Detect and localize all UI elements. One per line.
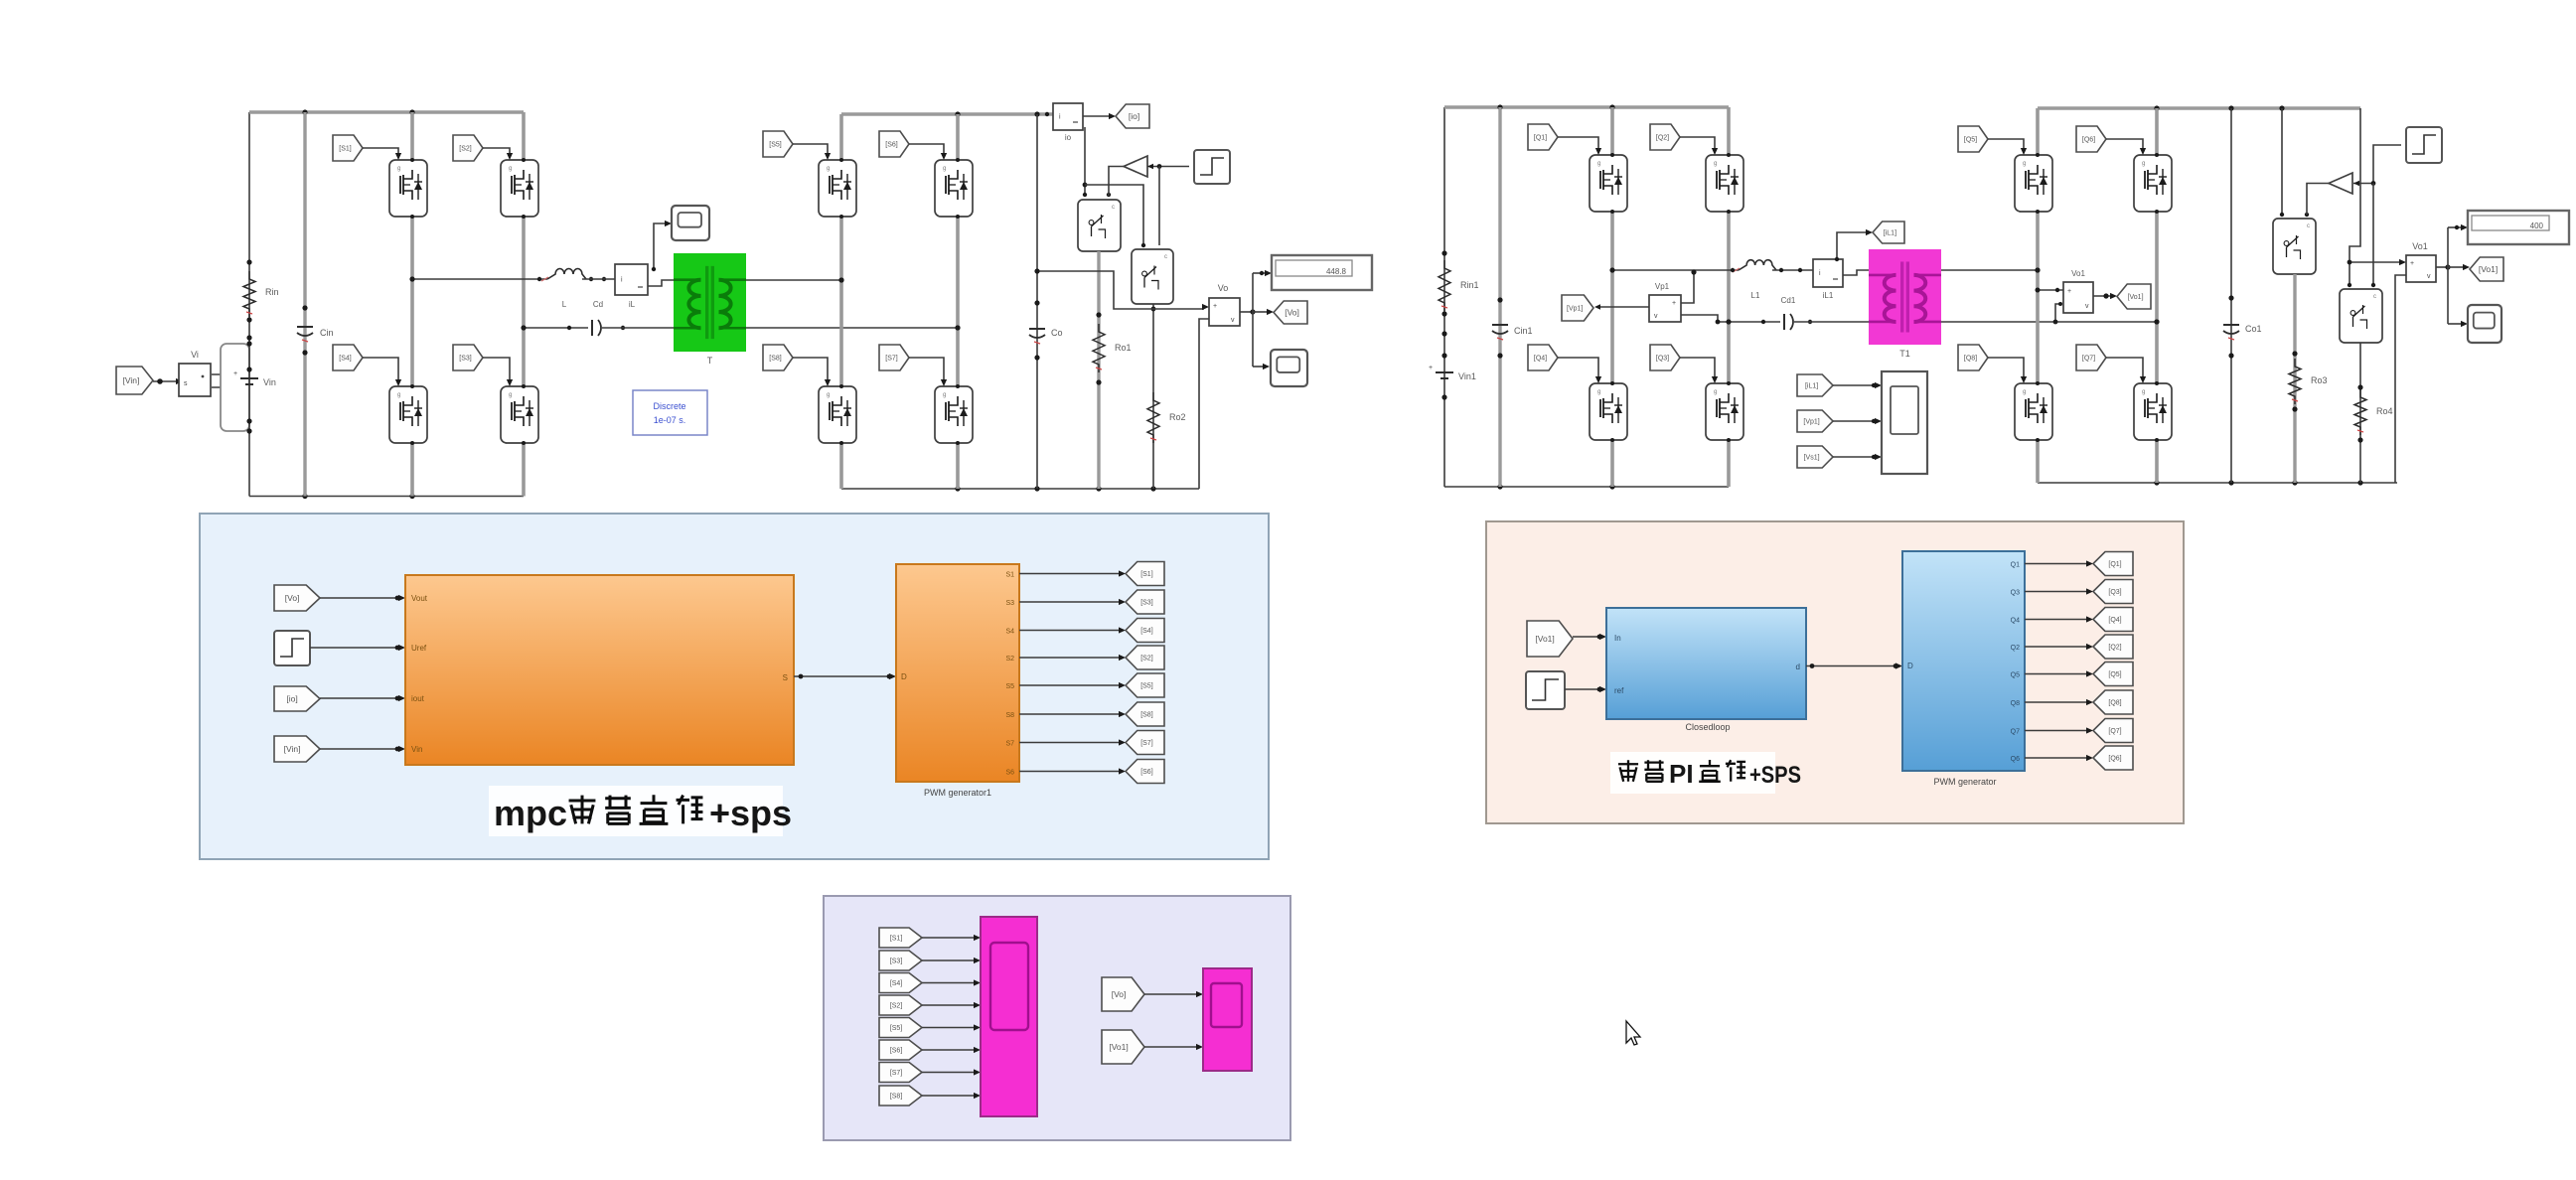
svg-text:[S3]: [S3]: [890, 959, 903, 965]
svg-text:[Q5]: [Q5]: [2108, 671, 2121, 678]
wire bottom rail c2 bridge2: [2038, 482, 2397, 484]
wire pwm1 out [S6]: [1019, 771, 1121, 773]
wire mpc to pwm1: [794, 675, 891, 677]
svg-text:g: g: [943, 392, 946, 398]
wire transformer to colC mid: [746, 279, 841, 281]
from tag [S8]: [763, 345, 793, 370]
from tag [Q6]: [2076, 126, 2106, 152]
goto tag [Q8]: [2093, 690, 2133, 714]
breaker 2: [1132, 249, 1173, 304]
svg-text:[S5]: [S5]: [890, 1025, 903, 1032]
svg-text:c: c: [2307, 223, 2310, 229]
svg-text:g: g: [2142, 389, 2145, 395]
wire Vo branch vertical: [1252, 273, 1254, 367]
svg-text:+: +: [2410, 260, 2414, 267]
svg-text:v: v: [2427, 273, 2431, 280]
svg-text:Vo: Vo: [1218, 283, 1229, 293]
wire [S4] to gate scope: [922, 982, 976, 984]
from tag [S2] scope-panel: [879, 995, 922, 1015]
goto tag [Q2]: [2093, 635, 2133, 659]
wire Cin column: [303, 112, 306, 497]
wire gate Q4: [1558, 358, 1598, 379]
svg-text:+: +: [2067, 288, 2071, 295]
from tag [Vp1] scope: [1797, 410, 1833, 432]
wire gate Q2: [1680, 137, 1715, 151]
wire gain to breaker1 ctrl: [1109, 167, 1124, 197]
svg-text:[Vo1]: [Vo1]: [1535, 634, 1554, 644]
svg-text:448.8: 448.8: [1326, 267, 1347, 276]
wire column x=1740: [1727, 107, 1731, 487]
from tag [Vo] mpc: [274, 585, 320, 611]
svg-text:io: io: [1065, 133, 1072, 142]
scope block voltages (magenta): [1203, 968, 1252, 1071]
svg-text:[S5]: [S5]: [769, 142, 782, 149]
inductor L1: [1739, 260, 1776, 270]
from tag [S2]: [453, 135, 483, 161]
svg-text:S2: S2: [1005, 656, 1014, 663]
svg-text:Ro4: Ro4: [2376, 406, 2393, 416]
wire gate S5: [793, 144, 828, 156]
goto tag [S1]: [1126, 562, 1164, 586]
gain block 2: [2329, 173, 2352, 194]
wire Vo1+ from column: [2038, 289, 2063, 291]
svg-text:[S8]: [S8]: [1140, 712, 1153, 719]
svg-text:Vin: Vin: [263, 377, 276, 387]
svg-text:[Vo]: [Vo]: [285, 593, 300, 603]
capacitor Cd: [592, 320, 601, 336]
wire rail to breaker4: [2349, 108, 2360, 285]
wire to scope2: [2448, 323, 2462, 325]
wire to display1: [1253, 272, 1266, 274]
svg-text:[Vp1]: [Vp1]: [1803, 419, 1819, 426]
svg-text:g: g: [2023, 389, 2026, 395]
svg-text:+: +: [233, 370, 237, 377]
from tag [S4]: [333, 345, 363, 370]
from tag [Q3]: [1650, 345, 1680, 370]
svg-text:s: s: [184, 380, 188, 387]
from tag [Vin]: [116, 367, 153, 394]
wire gate S2: [483, 148, 510, 156]
mosfet Q4: [1590, 383, 1627, 440]
voltage measurement Vp1: [1649, 295, 1681, 322]
svg-text:[S6]: [S6]: [1140, 769, 1153, 776]
svg-text:[Vs1]: [Vs1]: [1804, 455, 1820, 462]
wire gain2 to breaker3 ctrl: [2307, 184, 2329, 216]
svg-text:[S1]: [S1]: [339, 146, 352, 153]
discrete solver annotation block: [633, 390, 707, 435]
scope block multi-input: [1882, 371, 1927, 474]
resistor Ro1: [1093, 324, 1105, 372]
transformer T1: [1869, 249, 1941, 345]
svg-text:Q7: Q7: [2011, 729, 2020, 736]
wire iL signal to scope: [654, 223, 667, 269]
svg-text:g: g: [2142, 161, 2145, 167]
svg-text:c: c: [2373, 294, 2376, 300]
current measurement iL: [615, 264, 648, 295]
svg-text:Co: Co: [1051, 328, 1063, 338]
svg-text:Ro1: Ro1: [1115, 343, 1132, 353]
wire bridge1 midA to inductor: [412, 278, 547, 280]
svg-text:[Q8]: [Q8]: [1964, 356, 1977, 363]
wire T1 to colG mid: [1941, 269, 2038, 271]
wire step2 to gain2: [2353, 145, 2401, 184]
gain block: [1124, 156, 1147, 177]
wire gate Q3: [1680, 358, 1715, 379]
goto tag [S4]: [1126, 619, 1164, 643]
wire [S2] to gate scope: [922, 1004, 976, 1006]
svg-text:Ro2: Ro2: [1169, 412, 1186, 422]
capacitor Co1: [2223, 325, 2239, 340]
svg-text:[Vo1]: [Vo1]: [2128, 294, 2144, 301]
wire Vo to mpc: [320, 597, 400, 599]
svg-text:v: v: [1231, 317, 1235, 324]
from tag [io] mpc: [274, 686, 320, 711]
svg-text:[Q7]: [Q7]: [2082, 356, 2095, 363]
mosfet S4: [389, 386, 427, 443]
svg-text:S1: S1: [1005, 572, 1014, 579]
wire pwm2 out [Q1]: [2025, 563, 2088, 565]
wire Vp1+ from top wire: [1681, 272, 1694, 303]
goto tag [io]: [1116, 104, 1149, 128]
mosfet Q3: [1706, 383, 1743, 440]
wire left rail circuit1: [248, 112, 250, 497]
wire pwm2 out [Q3]: [2025, 591, 2088, 593]
wire Vo1b out: [2436, 266, 2448, 268]
wire pwm1 out [S7]: [1019, 742, 1121, 744]
mosfet Q8: [2015, 383, 2052, 440]
wire closedloop to pwm2: [1806, 665, 1897, 667]
svg-text:g: g: [1597, 389, 1600, 395]
svg-text:[Vin]: [Vin]: [284, 744, 301, 754]
svg-text:v: v: [1654, 313, 1658, 320]
from tag [Q5]: [1958, 126, 1988, 152]
wire Uref2 to closedloop: [1565, 688, 1601, 690]
from tag [S4] scope-panel: [879, 973, 922, 993]
from tag [S5] scope-panel: [879, 1018, 922, 1038]
svg-text:[Q4]: [Q4]: [2108, 617, 2121, 624]
svg-text:Vin: Vin: [411, 745, 422, 754]
from tag [S1] scope-panel: [879, 928, 922, 948]
svg-text:[S6]: [S6]: [890, 1048, 903, 1055]
wire Vo- to bottom rail: [1199, 319, 1209, 489]
svg-text:Q6: Q6: [2011, 756, 2020, 763]
wire Vp1- to lower wire: [1681, 315, 1718, 322]
wire Vo1- to lower wire: [2055, 304, 2060, 322]
from tag [S3] scope-panel: [879, 951, 922, 970]
svg-text:S3: S3: [1005, 600, 1014, 607]
wire column x=415: [410, 112, 414, 497]
wire pwm2 out [Q7]: [2025, 730, 2088, 732]
mosfet Q5: [2015, 155, 2052, 212]
svg-text:[iL1]: [iL1]: [1884, 230, 1896, 237]
wire gate S4: [363, 358, 398, 382]
wire Cin1 column: [1498, 107, 1501, 487]
svg-text:[Q6]: [Q6]: [2082, 137, 2095, 144]
wire gate Q5: [1988, 139, 2024, 151]
wire gate S1: [363, 148, 398, 156]
wire pwm1 out [S8]: [1019, 713, 1121, 715]
wire iL to transformer: [648, 280, 674, 286]
svg-text:L1: L1: [1751, 291, 1760, 300]
svg-text:Q3: Q3: [2011, 590, 2020, 597]
svg-text:T: T: [707, 356, 713, 366]
goto tag [Q6]: [2093, 746, 2133, 770]
svg-text:+: +: [1213, 303, 1217, 310]
svg-text:PI: PI: [1669, 759, 1694, 789]
svg-text:[Vo1]: [Vo1]: [2479, 264, 2498, 274]
svg-text:[S1]: [S1]: [890, 936, 903, 943]
wire pwm1 out [S1]: [1019, 573, 1121, 575]
goto tag [iL1]: [1873, 221, 1904, 243]
wire left rail circuit2: [1443, 107, 1445, 487]
wire bridge1 midB to Cd: [524, 327, 588, 329]
from tag [Vo1] scope-panel: [1102, 1030, 1144, 1064]
voltage measurement Vo1: [2063, 282, 2093, 313]
wire gate S6: [909, 144, 944, 156]
svg-text:Co1: Co1: [2245, 324, 2262, 334]
wire to display2: [2448, 226, 2462, 228]
svg-text:Vp1: Vp1: [1655, 282, 1670, 291]
area box PI (light peach): [1486, 521, 2184, 823]
scope iL: [672, 206, 709, 240]
svg-text:Cin1: Cin1: [1514, 326, 1533, 336]
svg-text:D: D: [901, 672, 907, 681]
svg-text:[Q1]: [Q1]: [1534, 135, 1547, 142]
wire breaker2 to Ro2: [1152, 304, 1154, 489]
svg-text:Rin1: Rin1: [1460, 280, 1479, 290]
svg-text:Vout: Vout: [411, 594, 428, 603]
svg-text:[S4]: [S4]: [1140, 628, 1153, 635]
svg-text:g: g: [827, 166, 830, 172]
svg-text:c: c: [1112, 205, 1115, 211]
wire pwm1 out [S2]: [1019, 657, 1121, 659]
wire gate Q1: [1558, 137, 1598, 151]
from tag [S6] scope-panel: [879, 1040, 922, 1060]
wire pwm1 out [S4]: [1019, 630, 1121, 632]
wire Vo to scope voltages: [1144, 993, 1198, 995]
svg-text:Vo1: Vo1: [2071, 269, 2085, 278]
from tag [Vo] scope-panel: [1102, 977, 1144, 1011]
wire io drop to breaker1: [1084, 127, 1086, 196]
from tag [Q4]: [1528, 345, 1558, 370]
step block load2: [2406, 127, 2442, 163]
wire bottom rail c1 bridge1: [249, 496, 524, 498]
from tag [S7] scope-panel: [879, 1063, 922, 1083]
area box MPC (light blue): [200, 514, 1269, 859]
svg-text:[Q3]: [Q3]: [1656, 356, 1669, 363]
inductor L: [547, 269, 586, 280]
goto tag [S7]: [1126, 731, 1164, 755]
wire io to mpc: [320, 697, 400, 699]
svg-text:[io]: [io]: [286, 694, 297, 704]
wire Vo out: [1240, 311, 1253, 313]
from tag [S6]: [879, 131, 909, 157]
svg-text:+: +: [1429, 365, 1433, 371]
from tag [iL1] scope: [1797, 374, 1833, 396]
goto tag [S5]: [1126, 673, 1164, 697]
svg-text:Cd1: Cd1: [1781, 296, 1796, 305]
scope Vo1: [2468, 305, 2501, 343]
svg-text:ref: ref: [1614, 686, 1624, 695]
svg-text:400: 400: [2530, 221, 2544, 230]
wire rail to breaker3: [2281, 108, 2283, 215]
svg-text:Closedloop: Closedloop: [1685, 722, 1730, 732]
svg-text:Vi: Vi: [191, 350, 199, 360]
wire gate Q7: [2106, 358, 2143, 379]
from tag [Q8]: [1958, 345, 1988, 370]
wire pwm2 out [Q6]: [2025, 757, 2088, 759]
goto tag [Vp1]: [1562, 295, 1593, 321]
svg-text:[S7]: [S7]: [885, 356, 898, 363]
svg-text:g: g: [397, 166, 400, 172]
from tag [Vo1] pi: [1527, 621, 1573, 657]
wire gate S8: [793, 358, 828, 382]
wire Vo1b- to rail: [2395, 275, 2406, 483]
svg-text:Discrete: Discrete: [653, 401, 685, 411]
svg-text:+: +: [1672, 300, 1676, 307]
svg-text:T1: T1: [1899, 349, 1910, 359]
goto tag [S2]: [1126, 646, 1164, 669]
wire L1 to iL1: [1772, 269, 1813, 271]
svg-text:S4: S4: [1005, 629, 1014, 636]
mosfet S8: [819, 386, 856, 443]
svg-text:[S8]: [S8]: [769, 356, 782, 363]
wire step to breaker2 ctrl: [1158, 167, 1160, 246]
wire breaker3 to Ro3: [2293, 274, 2296, 483]
from tag [S8] scope-panel: [879, 1086, 922, 1106]
from tag [Vs1] scope: [1797, 446, 1833, 468]
svg-text:S7: S7: [1005, 741, 1014, 748]
wire iL1 to transformer T1: [1843, 270, 1869, 275]
wire column x=1623: [1610, 107, 1614, 487]
svg-text:[S1]: [S1]: [1140, 571, 1153, 578]
svg-text:1e-07 s.: 1e-07 s.: [654, 415, 686, 425]
wire to scope1: [1253, 366, 1264, 368]
current measurement io: [1053, 103, 1083, 130]
svg-text:iL1: iL1: [1823, 291, 1834, 300]
wire breaker1 to Ro1: [1097, 251, 1100, 489]
wire column x=847: [839, 114, 843, 489]
svg-text:[io]: [io]: [1129, 111, 1139, 121]
svg-text:D: D: [1907, 662, 1913, 670]
wire to Vo tag: [1253, 311, 1268, 313]
svg-text:Q4: Q4: [2011, 618, 2020, 625]
dc source Vin: [233, 370, 258, 384]
svg-text:[Q2]: [Q2]: [2108, 645, 2121, 652]
svg-text:mpc: mpc: [494, 793, 567, 833]
from tag [S1]: [333, 135, 363, 161]
wire [S7] to gate scope: [922, 1072, 976, 1074]
wire Vo1 to closedloop: [1573, 636, 1601, 638]
wire bridge3 midF to Cd1: [1718, 321, 1780, 323]
display block 2: [2468, 211, 2569, 244]
wire step2 to breaker4 ctrl: [2372, 184, 2374, 286]
resistor Rin: [243, 271, 255, 317]
controlled voltage source block Vi: [179, 364, 211, 396]
wire top rail c2 bridge2: [2038, 106, 2360, 109]
svg-text:In: In: [1614, 634, 1621, 643]
wire top rail c2 bridge1: [1444, 105, 1729, 108]
wire inductor to iL: [582, 278, 615, 280]
capacitor Cd1: [1784, 314, 1793, 330]
wire Uref to mpc: [310, 647, 400, 649]
wire pwm2 out [Q8]: [2025, 701, 2088, 703]
node bridge4 mid junctions: [2035, 267, 2040, 272]
wire Cd1 to transformer T1: [1794, 321, 1869, 323]
wire [S3] to gate scope: [922, 959, 976, 961]
svg-text:[Vin]: [Vin]: [123, 375, 140, 385]
wire Co1 column: [2230, 108, 2232, 483]
from tag [Vin] mpc: [274, 736, 320, 762]
svg-text:g: g: [827, 392, 830, 398]
dc source Vin1: [1429, 365, 1453, 378]
text label PI: [1610, 752, 1775, 794]
svg-text:[S3]: [S3]: [459, 356, 472, 363]
svg-text:+sps: +sps: [709, 793, 792, 833]
goto tag [Q4]: [2093, 608, 2133, 632]
from tag [S3]: [453, 345, 483, 370]
goto tag [S3]: [1126, 590, 1164, 614]
svg-text:[Vo1]: [Vo1]: [1109, 1042, 1128, 1052]
svg-text:Vin1: Vin1: [1458, 371, 1476, 381]
svg-text:[S7]: [S7]: [890, 1070, 903, 1077]
svg-text:PWM generator: PWM generator: [1933, 777, 1996, 787]
wire pwm1 out [S3]: [1019, 601, 1121, 603]
svg-text:[Q1]: [Q1]: [2108, 561, 2121, 568]
goto tag [Q5]: [2093, 663, 2133, 686]
step block Uref2: [1526, 671, 1565, 709]
current measurement iL1: [1813, 259, 1843, 287]
capacitor Co: [1029, 329, 1045, 344]
svg-text:iL: iL: [629, 300, 636, 309]
mosfet Q7: [2134, 383, 2172, 440]
wire Cd to transformer: [602, 327, 674, 329]
svg-text:[Vp1]: [Vp1]: [1567, 306, 1583, 313]
svg-text:g: g: [2023, 161, 2026, 167]
mosfet Q2: [1706, 155, 1743, 212]
svg-text:Cd: Cd: [593, 300, 603, 309]
from tag [Q7]: [2076, 345, 2106, 370]
wire iL1 signal to tag: [1837, 232, 1868, 259]
wire to Vo1b: [2349, 261, 2401, 263]
step block load1: [1194, 150, 1230, 184]
wire pwm1 out [S5]: [1019, 684, 1121, 686]
svg-text:Q8: Q8: [2011, 700, 2020, 707]
svg-text:g: g: [1597, 161, 1600, 167]
wire [S6] to gate scope: [922, 1049, 976, 1051]
svg-text:[Q8]: [Q8]: [2108, 700, 2121, 707]
wire bottom rail c2 bridge1: [1444, 486, 1729, 488]
wire column x=2171: [2155, 108, 2159, 483]
svg-text:[iL1]: [iL1]: [1805, 383, 1818, 390]
mosfet S5: [819, 160, 856, 217]
svg-text:Rin: Rin: [265, 287, 279, 297]
mosfet S7: [935, 386, 973, 443]
wire Co column: [1036, 114, 1038, 489]
svg-text:g: g: [509, 166, 512, 172]
goto tag [Vo1] mid: [2117, 284, 2151, 309]
mosfet Q1: [1590, 155, 1627, 212]
svg-text:Uref: Uref: [411, 644, 427, 653]
wire out+ to Vo: [1037, 271, 1204, 309]
svg-text:g: g: [1714, 161, 1717, 167]
wire top rail c1 bridge2: [841, 112, 1053, 115]
svg-text:+SPS: +SPS: [1749, 762, 1801, 789]
svg-text:[Vo]: [Vo]: [1285, 308, 1299, 318]
wire column x=964: [956, 114, 960, 489]
wire to breaker2 left: [1085, 185, 1143, 245]
wire breaker4 to Ro4: [2359, 343, 2361, 483]
